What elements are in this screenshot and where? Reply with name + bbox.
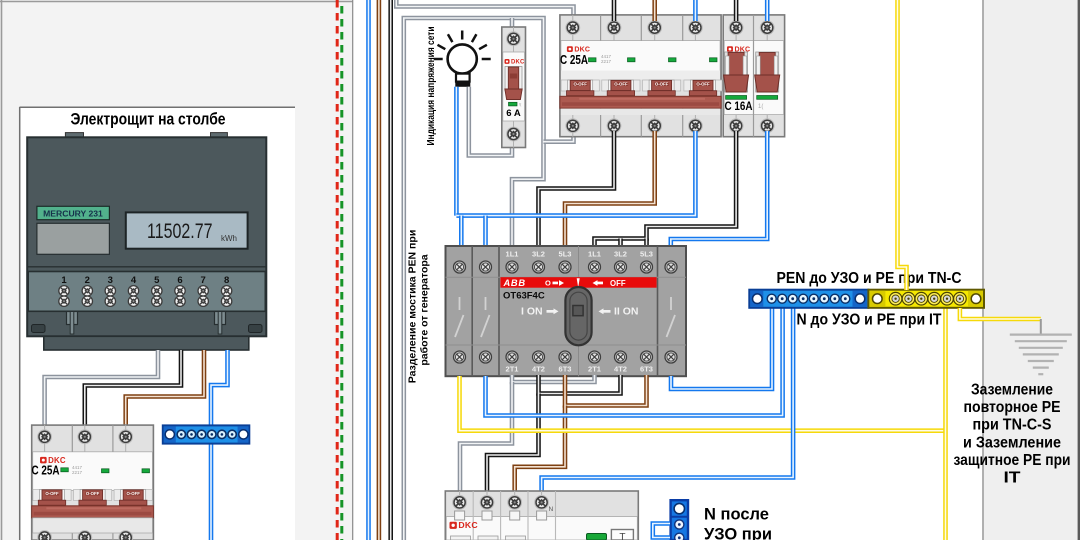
wire black wire: changeover 4T2 output to RCD terminal 2 xyxy=(487,394,539,493)
wire feeder L3 blue riser (full height) xyxy=(366,0,371,540)
wire blue link between N-block terminals xyxy=(653,524,670,538)
street breaker top screws xyxy=(38,430,133,444)
wire meter L3 blue: meter to N-bus xyxy=(211,350,228,425)
boundary red dashed line xyxy=(336,0,339,540)
svg-text:5L3: 5L3 xyxy=(640,250,653,259)
main breaker bottom screws xyxy=(566,119,702,133)
wire feeder N grey riser to top loop feeding main breaker input xyxy=(396,0,573,21)
changeover top screws xyxy=(454,261,678,273)
wire generator L feed black (cut at top) xyxy=(734,0,739,21)
wire generator N feed blue (cut at top) xyxy=(765,0,770,21)
svg-text:11502.77: 11502.77 xyxy=(147,219,213,243)
changeover N-pole contact symbols xyxy=(455,297,675,337)
svg-text:повторное PE: повторное PE xyxy=(964,399,1061,416)
label: PEN до УЗО и PE при TN-C xyxy=(777,270,962,287)
label: Заземление повторное PE при TN-C-S и Заземление защитное PE при IT xyxy=(954,382,1071,487)
circuit breaker DKC C25A 3-pole (street) xyxy=(32,425,154,540)
svg-text:Электрощит на столбе: Электрощит на столбе xyxy=(71,111,226,129)
wire meter L2 brown: meter to breaker pole3 xyxy=(126,350,204,425)
svg-text:C 25A: C 25A xyxy=(32,464,60,478)
svg-text:2: 2 xyxy=(85,275,90,286)
wire black stub into changeover 3L2 section II xyxy=(618,239,623,249)
wire meter L1 black: meter to breaker pole2 xyxy=(85,350,181,425)
svg-text:5: 5 xyxy=(154,275,160,286)
generator breaker bottom screws xyxy=(729,119,774,133)
boundary green dashed line xyxy=(340,6,343,540)
svg-text:N до УЗО и PE при IT: N до УЗО и PE при IT xyxy=(797,312,942,329)
N terminal busbar (street, blue) xyxy=(163,425,250,443)
svg-text:3: 3 xyxy=(108,275,113,286)
electricity meter MERCURY 231 xyxy=(27,133,266,337)
changeover bottom screws xyxy=(454,351,678,363)
wire grey wire: changeover 2T1 output to RCD terminal 1 xyxy=(460,382,512,492)
svg-text:MERCURY 231: MERCURY 231 xyxy=(43,208,103,218)
svg-text:6 A: 6 A xyxy=(506,108,521,119)
wire yellow PE wire from busbar to earth electrode xyxy=(960,308,1041,319)
svg-text:O: O xyxy=(545,278,551,287)
svg-text:2217: 2217 xyxy=(72,470,83,475)
wire brown jumper bridging 6T3-I to 6T3-II xyxy=(565,375,647,406)
label: Электрощит на столбе xyxy=(71,111,226,129)
svg-text:Разделение мостика PEN при: Разделение мостика PEN при xyxy=(407,230,419,384)
wire main breaker L1 feed black (cut at top) xyxy=(612,0,617,21)
svg-text:1L1: 1L1 xyxy=(506,250,519,259)
wire black jumper bridging 4T2-I to 4T2-II xyxy=(539,375,621,394)
svg-text:O-OFF: O-OFF xyxy=(574,82,588,87)
svg-text:C 25A: C 25A xyxy=(560,53,588,67)
changeover rotary knob xyxy=(565,287,591,345)
label: N до УЗО и PE при IT xyxy=(797,312,942,329)
svg-text:7: 7 xyxy=(201,275,206,286)
svg-text:2T1: 2T1 xyxy=(588,365,601,374)
wire yellow PE wire: changeover left N pole to PE riser xyxy=(460,376,946,431)
house panel white background xyxy=(353,0,983,540)
circuit breaker DKC 6A 1-pole (lamp) xyxy=(502,27,526,148)
svg-text:4T2: 4T2 xyxy=(532,365,545,374)
svg-text:3L2: 3L2 xyxy=(614,250,627,259)
svg-text:PEN до УЗО и PE при TN-C: PEN до УЗО и PE при TN-C xyxy=(777,270,962,287)
6A breaker screws xyxy=(507,32,521,141)
svg-text:и Заземление: и Заземление xyxy=(963,434,1061,451)
svg-text:4: 4 xyxy=(131,275,137,286)
wire black wire: main breaker T2 to changeover 3L2 section I xyxy=(539,131,615,248)
svg-text:2217: 2217 xyxy=(601,59,612,64)
enclosure box: street pole cabinet xyxy=(20,107,296,540)
svg-text:1(: 1( xyxy=(758,104,763,110)
main breaker top screws xyxy=(566,21,702,35)
PEN busbar blue section (N) xyxy=(749,290,868,308)
RCD DKC 4-pole xyxy=(445,491,638,540)
wire feeder L2 brown riser (full height) xyxy=(377,0,382,540)
wire main breaker L2 feed brown (cut at top) xyxy=(652,0,657,21)
wire blue wire: changeover right N pole to PEN busbar xyxy=(671,308,772,389)
wire blue wire: changeover N pole 2 to PEN busbar xyxy=(486,308,783,416)
wire blue drop into changeover N pole 2 xyxy=(483,216,488,248)
PEN busbar yellow section (PE) xyxy=(868,290,984,308)
changeover I ON / II ON markings xyxy=(521,306,639,318)
wire brown wire: changeover 6T3 output to RCD terminal 3 xyxy=(515,406,565,493)
meter terminal screws xyxy=(59,286,232,307)
N terminal block after RCD (blue) xyxy=(671,500,688,540)
wire lamp return grey wire to 6A breaker bottom xyxy=(469,87,512,156)
meter lower cover with DIN clips xyxy=(32,312,263,351)
svg-text:Индикация напряжения сети: Индикация напряжения сети xyxy=(425,27,437,146)
svg-text:N после: N после xyxy=(704,506,769,524)
svg-text:4T2: 4T2 xyxy=(614,365,627,374)
wire lamp live blue wire down to changeover N poles xyxy=(454,87,459,216)
changeover bottom terminal labels 2T1 4T2 6T3 / 2T1 4T2 6T3 xyxy=(506,365,653,374)
svg-text:1: 1 xyxy=(61,275,67,286)
wire meter N grey: meter to breaker pole1 xyxy=(45,350,158,425)
svg-text:DKC: DKC xyxy=(458,520,478,530)
label: N после УЗО при xyxy=(704,506,772,540)
changeover switch ABB OT63F4C xyxy=(446,246,687,376)
svg-text:6T3: 6T3 xyxy=(559,365,572,374)
svg-text:1L1: 1L1 xyxy=(588,250,601,259)
circuit breaker DKC C16A 2-pole (generator) xyxy=(723,15,784,137)
svg-text:O-OFF: O-OFF xyxy=(86,491,100,496)
svg-text:O-OFF: O-OFF xyxy=(127,491,141,496)
wire blue drop into changeover N pole 1 xyxy=(459,216,464,248)
wire main breaker L3 feed blue (cut at top) xyxy=(693,0,698,21)
svg-text:N: N xyxy=(549,506,554,513)
svg-text:защитное PE при: защитное PE при xyxy=(954,452,1071,469)
wire feeder L1 black riser (full height) xyxy=(388,0,393,540)
svg-text:ABB: ABB xyxy=(503,278,526,288)
wire black stub into changeover 5L3 section II xyxy=(644,239,649,249)
street breaker bottom screws (cut at canvas edge) xyxy=(38,531,133,540)
wire grey jumper bridging 2T1-I to 2T1-II xyxy=(512,375,595,382)
svg-text:Заземление: Заземление xyxy=(971,382,1053,399)
svg-text:C 16A: C 16A xyxy=(725,99,753,113)
svg-text:O-OFF: O-OFF xyxy=(655,82,669,87)
svg-text:УЗО при: УЗО при xyxy=(704,526,772,540)
label: Индикация напряжения сети xyxy=(425,27,437,146)
wire grey PEN trunk: bottom riser, top loop to 6A breaker and changeover 1L1 xyxy=(404,18,544,540)
svg-text:8: 8 xyxy=(224,275,229,286)
circuit breaker DKC C25A 4-pole (main) xyxy=(560,15,722,137)
svg-text:5L3: 5L3 xyxy=(559,250,572,259)
indicator lamp xyxy=(434,31,491,87)
svg-text:T: T xyxy=(619,532,625,540)
wire blue wire: main breaker T4 to lamp node and changeover N poles xyxy=(456,131,695,216)
left street-side background panel xyxy=(0,0,353,540)
svg-text:I ON: I ON xyxy=(521,306,543,318)
svg-text:при TN-C-S: при TN-C-S xyxy=(973,417,1052,434)
svg-text:O-OFF: O-OFF xyxy=(45,491,59,496)
svg-text:O-OFF: O-OFF xyxy=(614,82,628,87)
wire grey branch into 6A breaker top xyxy=(510,18,515,28)
wire N riser below street N-bus xyxy=(209,444,214,540)
svg-text:DKC: DKC xyxy=(511,60,525,66)
svg-text:IT: IT xyxy=(1004,470,1022,487)
svg-text:OFF: OFF xyxy=(610,279,626,288)
wire blue wire: generator breaker T2 to changeover right N pole xyxy=(671,131,767,248)
wire yellow PE riser from PEN busbar down (cut at bottom) xyxy=(943,308,948,540)
wire brown wire: main breaker T3 to changeover 5L3 section I xyxy=(565,131,655,248)
svg-text:6: 6 xyxy=(177,275,182,286)
svg-text:OT63F4C: OT63F4C xyxy=(503,291,545,302)
ground electrode symbol xyxy=(1010,319,1072,374)
wire black wire: generator breaker T1 to changeover section II bus xyxy=(595,131,737,248)
changeover red band with ABB logo and O/OFF markings xyxy=(500,277,656,288)
svg-text:3L2: 3L2 xyxy=(532,250,545,259)
svg-text:работе от генератора: работе от генератора xyxy=(419,254,431,365)
generator breaker top screws xyxy=(729,21,774,35)
svg-text:2T1: 2T1 xyxy=(506,365,519,374)
wire grey link from main breaker T1 output into trunk xyxy=(544,131,574,142)
right outdoor ground zone panel xyxy=(983,0,1080,540)
svg-text:6T3: 6T3 xyxy=(640,365,653,374)
wire blue wire: PEN busbar to RCD N terminal xyxy=(542,308,794,492)
meter terminal numbers 1-8 xyxy=(61,275,229,286)
label OT63F4C xyxy=(503,291,545,302)
label: Разделение мостика PEN при работе от генератора xyxy=(407,230,431,384)
changeover top terminal labels 1L1 3L2 5L3 / 1L1 3L2 5L3 xyxy=(506,250,653,259)
svg-text:kWh: kWh xyxy=(221,234,237,243)
RCD terminal screws (4th is N) xyxy=(453,496,549,510)
svg-text:O-OFF: O-OFF xyxy=(696,82,710,87)
wire yellow PE feed from top into PEN busbar xyxy=(898,0,907,290)
svg-text:II ON: II ON xyxy=(614,306,639,318)
